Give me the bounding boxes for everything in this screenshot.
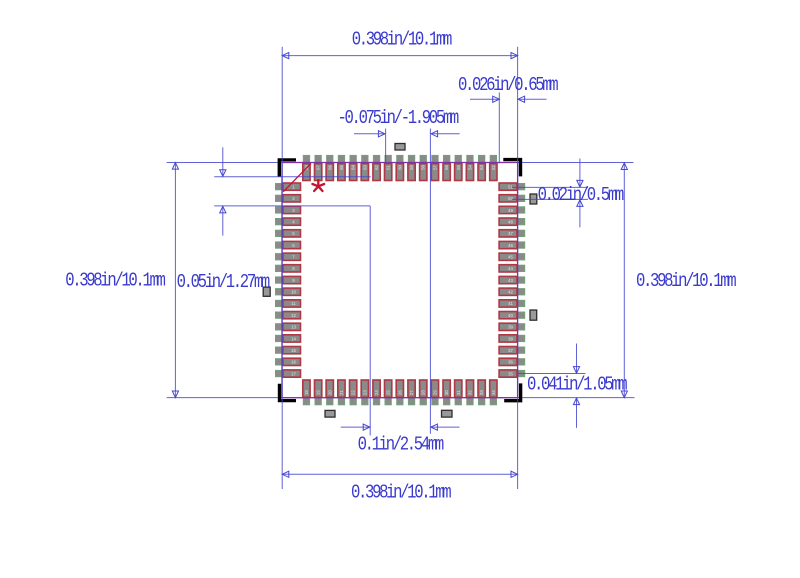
pad pin 28 (bottom row): [420, 380, 427, 397]
svg-text:55: 55: [456, 165, 461, 170]
arrowhead 0.026 left: [493, 96, 500, 102]
pin 10 lead (left): [276, 289, 285, 295]
arrowhead 0.02 lower: [577, 200, 583, 207]
pin 2 lead (left): [276, 195, 285, 201]
svg-text:48: 48: [508, 220, 513, 225]
pin 44 lead (right): [516, 265, 525, 271]
svg-text:27: 27: [409, 390, 414, 395]
dim arrow shaft 0.1 right: [431, 426, 460, 428]
silkscreen corner bottom-right: [504, 383, 522, 402]
pad pin 12 (left column): [283, 312, 301, 319]
svg-text:56: 56: [444, 165, 449, 170]
svg-text:53: 53: [479, 165, 484, 170]
svg-text:31: 31: [456, 390, 461, 395]
extension line x=385.6: [385, 129, 387, 163]
svg-text:23: 23: [362, 390, 367, 395]
pad pin 24 (bottom row): [373, 380, 380, 397]
svg-text:19: 19: [316, 390, 321, 395]
pin 61 lead (top): [385, 155, 391, 166]
svg-text:0.398in/10.1mm: 0.398in/10.1mm: [65, 270, 165, 292]
pad pin 23 (bottom row): [361, 380, 368, 397]
dim arrow shaft -0.075 right: [431, 133, 460, 135]
pin 12 lead (left): [276, 312, 285, 318]
svg-text:59: 59: [409, 165, 414, 170]
svg-text:29: 29: [432, 390, 437, 395]
pad pin 25 (bottom row): [385, 380, 392, 397]
pin 46 lead (right): [516, 242, 525, 248]
arrowhead bottom-dim right: [511, 471, 518, 477]
pad pin 36 (right column): [499, 358, 517, 365]
pad pin 57 (top row): [431, 164, 438, 181]
pin 25 lead (bottom): [385, 394, 391, 405]
pad pin 49 (right column): [499, 206, 517, 213]
svg-text:44: 44: [508, 266, 513, 271]
pin 55 lead (top): [455, 155, 461, 166]
pin 52 lead (top): [490, 155, 496, 166]
pad pin 52 (top row): [490, 164, 497, 181]
svg-text:0.02in/0.5mm: 0.02in/0.5mm: [538, 184, 624, 206]
pin 1 marker asterisk: [312, 180, 324, 191]
svg-text:39: 39: [508, 325, 513, 330]
arrowhead right-dim bottom: [621, 391, 627, 398]
pad pin 27 (bottom row): [408, 380, 415, 397]
svg-text:18: 18: [304, 390, 309, 395]
svg-text:46: 46: [508, 243, 513, 248]
arrowhead -0.075 right: [431, 131, 438, 137]
pad pin 61 (top row): [385, 164, 392, 181]
pin 53 lead (top): [479, 155, 485, 166]
arrowhead bottom-dim left: [282, 471, 289, 477]
pin 51 lead (right): [516, 184, 525, 190]
pin 41 lead (right): [516, 300, 525, 306]
pad pin 39 (right column): [499, 323, 517, 330]
pin 39 lead (right): [516, 324, 525, 330]
dimension line top 0.398in span: [282, 55, 517, 57]
pin 34 lead (bottom): [490, 394, 496, 405]
pin 42 lead (right): [516, 289, 525, 295]
pin 20 lead (bottom): [327, 394, 333, 405]
pad pin 10 (left column): [283, 288, 301, 295]
silkscreen corner bottom-left: [278, 384, 296, 403]
svg-text:0.05in/1.27mm: 0.05in/1.27mm: [177, 271, 270, 293]
svg-text:15: 15: [291, 348, 296, 353]
svg-text:0.041in/1.05mm: 0.041in/1.05mm: [527, 374, 627, 396]
pin 68 lead (top): [303, 155, 309, 166]
pad pin 3 (left column): [283, 206, 301, 213]
svg-text:10: 10: [291, 290, 296, 295]
pad pin 48 (right column): [499, 218, 517, 225]
pad pin 37 (right column): [499, 347, 517, 354]
pin 59 lead (top): [408, 155, 414, 166]
extension line bottom horizontal y=397.6: [167, 397, 635, 399]
svg-text:32: 32: [468, 390, 473, 395]
pad pin 55 (top row): [455, 164, 462, 181]
svg-text:67: 67: [316, 165, 321, 170]
marker rectangle left: [263, 287, 270, 296]
pin 66 lead (top): [327, 155, 333, 166]
pad pin 56 (top row): [443, 164, 450, 181]
pad pin 2 (left column): [283, 195, 301, 202]
pin 32 lead (bottom): [467, 394, 473, 405]
pad pin 60 (top row): [396, 164, 403, 181]
pad pin 18 (bottom row): [303, 380, 310, 397]
pin 54 lead (top): [467, 155, 473, 166]
svg-text:24: 24: [374, 390, 379, 395]
arrowhead 0.05 lower: [220, 206, 226, 213]
dim arrow shaft 0.041 lower: [576, 398, 578, 428]
pin 17 lead (left): [276, 370, 285, 376]
svg-text:42: 42: [508, 290, 513, 295]
svg-text:58: 58: [421, 165, 426, 170]
pad pin 54 (top row): [466, 164, 473, 181]
pad pin 33 (bottom row): [478, 380, 485, 397]
arrowhead 0.041 upper: [573, 367, 579, 374]
pad pin 34 (bottom row): [490, 380, 497, 397]
pad pin 16 (left column): [283, 358, 301, 365]
pin 1 indicator diagonal line: [283, 163, 311, 192]
pad pin 62 (top row): [373, 164, 380, 181]
extension line y=176.7: [214, 176, 371, 178]
svg-text:-0.075in/-1.905mm: -0.075in/-1.905mm: [338, 107, 459, 129]
svg-text:60: 60: [397, 165, 402, 170]
pin 31 lead (bottom): [455, 394, 461, 405]
pad pin 26 (bottom row): [396, 380, 403, 397]
pin 48 lead (right): [516, 219, 525, 225]
extension line left vertical x=282: [281, 47, 283, 489]
pad pin 50 (right column): [499, 195, 517, 202]
dim arrow shaft 0.02 upper: [579, 159, 581, 188]
extension line y=199.4: [512, 198, 588, 200]
arrowhead top-dim left: [282, 53, 289, 59]
pin 4 lead (left): [276, 219, 285, 225]
arrowhead 0.05 upper: [220, 170, 226, 177]
svg-text:37: 37: [508, 348, 513, 353]
extension line x=430.4: [429, 129, 431, 434]
pin 1 lead (left): [276, 184, 285, 190]
pin 47 lead (right): [516, 230, 525, 236]
pad pin 21 (bottom row): [338, 380, 345, 397]
pin 29 lead (bottom): [432, 394, 438, 405]
marker rectangle right middle: [530, 310, 537, 320]
pad pin 41 (right column): [499, 300, 517, 307]
marker rectangle bottom left: [325, 410, 335, 417]
svg-text:22: 22: [351, 390, 356, 395]
svg-text:12: 12: [291, 313, 296, 318]
pin 7 lead (left): [276, 254, 285, 260]
pin 56 lead (top): [444, 155, 450, 166]
svg-text:45: 45: [508, 255, 513, 260]
pin 38 lead (right): [516, 335, 525, 341]
pad pin 35 (right column): [499, 370, 517, 377]
pad pin 8 (left column): [283, 265, 301, 272]
extension line y=373.5: [518, 373, 586, 375]
pad pin 9 (left column): [283, 276, 301, 283]
pin 9 lead (left): [276, 277, 285, 283]
pin 15 lead (left): [276, 347, 285, 353]
silkscreen corner top-right: [503, 158, 522, 177]
arrowhead left-dim top: [172, 163, 178, 170]
dim arrow shaft 0.026 left: [470, 98, 499, 100]
svg-text:11: 11: [291, 301, 296, 306]
pad pin 42 (right column): [499, 288, 517, 295]
pad pin 4 (left column): [283, 218, 301, 225]
dim arrow shaft 0.041 upper: [576, 344, 578, 374]
pin 60 lead (top): [397, 155, 403, 166]
svg-text:47: 47: [508, 231, 513, 236]
dim arrow shaft 0.05 lower: [222, 206, 224, 235]
pin 65 lead (top): [338, 155, 344, 166]
svg-text:54: 54: [468, 165, 473, 170]
pad pin 63 (top row): [361, 164, 368, 181]
arrowhead right-dim top: [621, 163, 627, 170]
pin 35 lead (right): [516, 370, 525, 376]
pad pin 46 (right column): [499, 241, 517, 248]
svg-text:0.026in/0.65mm: 0.026in/0.65mm: [458, 75, 558, 97]
pin 64 lead (top): [350, 155, 356, 166]
svg-text:49: 49: [508, 208, 513, 213]
package body outline: [282, 163, 518, 398]
svg-text:62: 62: [374, 165, 379, 170]
extension line y=187.4: [512, 186, 588, 188]
marker rectangle top: [395, 144, 405, 151]
extension line x=370.2: [369, 206, 371, 436]
svg-text:50: 50: [508, 196, 513, 201]
pin 24 lead (bottom): [373, 394, 379, 405]
pad pin 44 (right column): [499, 265, 517, 272]
dimension line left 0.398in span: [174, 163, 176, 398]
dimension line bottom 0.398in span: [282, 473, 517, 475]
pad pin 29 (bottom row): [431, 380, 438, 397]
arrowhead top-dim right: [511, 53, 518, 59]
pin 3 lead (left): [276, 207, 285, 213]
arrowhead 0.1 right: [431, 424, 438, 430]
dimension line right 0.398in span: [623, 163, 625, 398]
pin 57 lead (top): [432, 155, 438, 166]
dim arrow shaft 0.026 right: [518, 98, 547, 100]
pin 21 lead (bottom): [338, 394, 344, 405]
pin 36 lead (right): [516, 359, 525, 365]
pad pin 5 (left column): [283, 230, 301, 237]
svg-text:17: 17: [291, 371, 296, 376]
pin 62 lead (top): [373, 155, 379, 166]
pin 14 lead (left): [276, 335, 285, 341]
svg-text:0.398in/10.1mm: 0.398in/10.1mm: [352, 29, 452, 51]
pad pin 68 (top row): [303, 164, 310, 181]
pin 50 lead (right): [516, 195, 525, 201]
pin 6 lead (left): [276, 242, 285, 248]
pad pin 47 (right column): [499, 230, 517, 237]
svg-text:20: 20: [327, 390, 332, 395]
pin 13 lead (left): [276, 324, 285, 330]
svg-text:38: 38: [508, 336, 513, 341]
svg-text:28: 28: [421, 390, 426, 395]
pad pin 19 (bottom row): [315, 380, 322, 397]
pad pin 59 (top row): [408, 164, 415, 181]
pad pin 65 (top row): [338, 164, 345, 181]
svg-text:21: 21: [339, 390, 344, 395]
pin 26 lead (bottom): [397, 394, 403, 405]
pad pin 31 (bottom row): [455, 380, 462, 397]
svg-text:36: 36: [508, 360, 513, 365]
pad pin 58 (top row): [420, 164, 427, 181]
arrowhead 0.026 right: [518, 96, 525, 102]
svg-text:0.1in/2.54mm: 0.1in/2.54mm: [358, 434, 444, 456]
pad pin 17 (left column): [283, 370, 301, 377]
dim arrow shaft 0.1 left: [341, 426, 370, 428]
pad pin 11 (left column): [283, 300, 301, 307]
pad pin 13 (left column): [283, 323, 301, 330]
pin 22 lead (bottom): [350, 394, 356, 405]
pad pin 32 (bottom row): [466, 380, 473, 397]
svg-text:65: 65: [339, 165, 344, 170]
svg-text:52: 52: [491, 165, 496, 170]
svg-text:43: 43: [508, 278, 513, 283]
pin 67 lead (top): [315, 155, 321, 166]
svg-text:30: 30: [444, 390, 449, 395]
svg-text:14: 14: [291, 336, 296, 341]
pin 58 lead (top): [420, 155, 426, 166]
pad pin 40 (right column): [499, 312, 517, 319]
pin 49 lead (right): [516, 207, 525, 213]
svg-text:41: 41: [508, 301, 513, 306]
pad pin 38 (right column): [499, 335, 517, 342]
pad pin 22 (bottom row): [350, 380, 357, 397]
pad pin 53 (top row): [478, 164, 485, 181]
pin 33 lead (bottom): [479, 394, 485, 405]
svg-text:33: 33: [479, 390, 484, 395]
extension line x=499.3: [498, 93, 500, 164]
pad pin 7 (left column): [283, 253, 301, 260]
svg-text:66: 66: [327, 165, 332, 170]
pin 5 lead (left): [276, 230, 285, 236]
dim arrow shaft 0.05 upper: [222, 147, 224, 176]
arrowhead 0.1 left: [363, 424, 370, 430]
svg-text:26: 26: [397, 390, 402, 395]
svg-text:16: 16: [291, 360, 296, 365]
pad pin 14 (left column): [283, 335, 301, 342]
pad pin 67 (top row): [315, 164, 322, 181]
arrowhead -0.075 left: [378, 131, 385, 137]
arrowhead left-dim bottom: [172, 391, 178, 398]
pad pin 64 (top row): [350, 164, 357, 181]
pad pin 20 (bottom row): [326, 380, 333, 397]
pin 30 lead (bottom): [444, 394, 450, 405]
dim arrow shaft -0.075 left: [354, 133, 385, 135]
pad pin 1 (left column): [283, 183, 301, 190]
pad pin 66 (top row): [326, 164, 333, 181]
arrowhead 0.041 lower: [573, 398, 579, 405]
svg-text:61: 61: [386, 165, 391, 170]
pin 43 lead (right): [516, 277, 525, 283]
svg-text:25: 25: [386, 390, 391, 395]
pad pin 45 (right column): [499, 253, 517, 260]
silkscreen corner top-left: [278, 158, 296, 177]
pad pin 15 (left column): [283, 347, 301, 354]
pad pin 51 (right column): [499, 183, 517, 190]
pin 27 lead (bottom): [408, 394, 414, 405]
pin 19 lead (bottom): [315, 394, 321, 405]
svg-text:40: 40: [508, 313, 513, 318]
svg-text:13: 13: [291, 325, 296, 330]
pin 45 lead (right): [516, 254, 525, 260]
svg-text:57: 57: [432, 165, 437, 170]
pin 63 lead (top): [362, 155, 368, 166]
pin 8 lead (left): [276, 265, 285, 271]
pin 28 lead (bottom): [420, 394, 426, 405]
svg-text:0.398in/10.1mm: 0.398in/10.1mm: [351, 482, 451, 504]
marker rectangle bottom right: [442, 410, 453, 417]
pad pin 43 (right column): [499, 276, 517, 283]
svg-text:0.398in/10.1mm: 0.398in/10.1mm: [636, 270, 736, 292]
pin 11 lead (left): [276, 300, 285, 306]
pin 37 lead (right): [516, 347, 525, 353]
extension line right vertical x=517.6: [517, 47, 519, 489]
svg-text:63: 63: [362, 165, 367, 170]
marker rectangle right upper: [530, 194, 537, 204]
arrowhead 0.02 upper: [577, 180, 583, 187]
pin 18 lead (bottom): [303, 394, 309, 405]
pin 16 lead (left): [276, 359, 285, 365]
dim arrow shaft 0.02 lower: [579, 200, 581, 228]
svg-text:64: 64: [351, 165, 356, 170]
pin 23 lead (bottom): [362, 394, 368, 405]
extension line y=205.9: [214, 205, 370, 207]
extension line top horizontal y=162.5: [167, 162, 634, 164]
svg-text:35: 35: [508, 371, 513, 376]
svg-text:34: 34: [491, 390, 496, 395]
pad pin 30 (bottom row): [443, 380, 450, 397]
pad pin 6 (left column): [283, 241, 301, 248]
pin 40 lead (right): [516, 312, 525, 318]
